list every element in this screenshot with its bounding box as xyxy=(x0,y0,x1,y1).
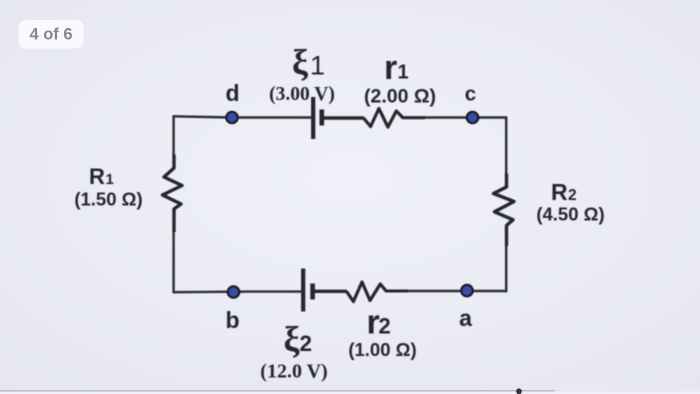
battery xi2 long plate (positive) xyxy=(301,269,305,312)
svg-text:4 of 6: 4 of 6 xyxy=(29,26,72,44)
bottom light strip below scan line xyxy=(0,391,700,394)
svg-text:ξ: ξ xyxy=(292,43,309,83)
wire right vertical (lower segment below R2) xyxy=(505,245,507,291)
wire left vertical (upper segment above R1) xyxy=(172,116,174,156)
wire thick segment battery xi2 to r2 xyxy=(314,290,347,293)
svg-text:R: R xyxy=(89,164,105,189)
svg-text:(2.00 Ω): (2.00 Ω) xyxy=(364,86,436,108)
wire thick segment battery xi1 to r1 xyxy=(323,116,364,119)
battery xi1 long plate (positive) xyxy=(311,97,315,139)
wire bottom-left: corner to battery xi2 xyxy=(174,290,301,293)
svg-text:(1.50 Ω): (1.50 Ω) xyxy=(74,189,142,210)
svg-text:a: a xyxy=(459,305,472,331)
svg-text:1: 1 xyxy=(310,51,325,81)
svg-text:1: 1 xyxy=(106,171,114,188)
svg-text:2: 2 xyxy=(568,187,577,204)
resistor r1 (top, 2.00 ohm) zigzag xyxy=(364,109,403,128)
battery xi1 short plate (negative) xyxy=(319,110,324,126)
node c xyxy=(467,112,478,123)
battery xi2 short plate (negative) xyxy=(310,284,315,300)
page badge "4 of 6" xyxy=(19,20,84,49)
svg-text:1: 1 xyxy=(398,62,409,84)
svg-text:(12.0 V): (12.0 V) xyxy=(260,361,327,383)
scan edge artifact line at bottom xyxy=(0,390,555,392)
wire thick segment after r2 xyxy=(386,290,408,293)
svg-text:(4.50 Ω): (4.50 Ω) xyxy=(536,204,604,225)
node a xyxy=(461,285,472,296)
svg-text:(1.00 Ω): (1.00 Ω) xyxy=(348,339,416,360)
svg-text:2: 2 xyxy=(300,331,313,356)
resistor r2 (bottom, 1.00 ohm) zigzag xyxy=(347,282,387,302)
wire thick segment after r1 xyxy=(402,116,425,119)
resistor R2 (right, 4.50 ohm) zigzag xyxy=(494,174,515,247)
wire top-right: resistor r1 to top-right corner xyxy=(402,116,506,118)
svg-text:c: c xyxy=(465,83,476,106)
resistor R1 (left, 1.50 ohm) zigzag xyxy=(163,155,183,233)
svg-text:ξ: ξ xyxy=(284,320,301,360)
svg-text:d: d xyxy=(225,80,239,106)
node b xyxy=(228,286,239,297)
node d xyxy=(226,112,237,123)
scan artifact dot xyxy=(516,388,522,394)
wire top-left: corner to battery xi1 xyxy=(174,116,311,117)
wire bottom-right: resistor r2 to bottom-right corner xyxy=(388,290,506,292)
svg-text:b: b xyxy=(225,307,239,333)
svg-text:r: r xyxy=(384,49,397,87)
svg-text:(3.00 V): (3.00 V) xyxy=(269,84,335,105)
svg-text:2: 2 xyxy=(379,314,391,339)
wire left vertical (lower segment below R1) xyxy=(172,231,174,292)
svg-text:R: R xyxy=(551,179,568,205)
wire right vertical (upper segment above R2) xyxy=(505,118,507,175)
